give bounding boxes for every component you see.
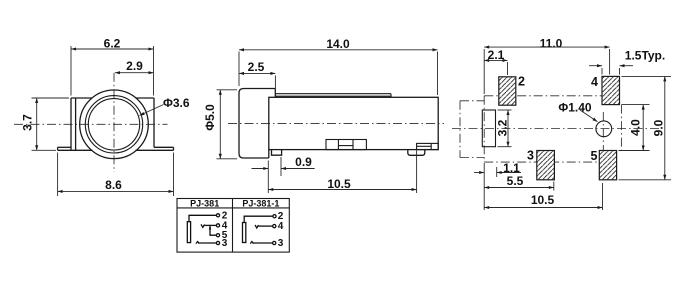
dimension 11.0 [484, 37, 609, 95]
svg-text:2.9: 2.9 [126, 59, 143, 73]
dimension 0.9 [252, 155, 315, 193]
svg-text:2.1: 2.1 [488, 48, 505, 62]
dimension 1.5 Typ [589, 49, 665, 75]
svg-text:3: 3 [222, 238, 228, 249]
svg-text:6.2: 6.2 [104, 37, 121, 51]
dimension 3.7 [21, 98, 70, 150]
svg-text:3: 3 [278, 238, 284, 249]
front hole circle [88, 99, 139, 150]
front view body outline [58, 98, 174, 150]
svg-text:11.0: 11.0 [540, 37, 563, 51]
svg-text:3.2: 3.2 [496, 119, 510, 136]
schematic 1 ring contact [196, 242, 199, 244]
pad 4 [591, 75, 619, 105]
svg-text:8.6: 8.6 [105, 178, 122, 192]
schematic 1 wire pin2 [189, 215, 216, 221]
land pattern hole centerline vertical [602, 112, 604, 153]
schematic 2 pin 3 [273, 241, 276, 244]
schematic 2 pin 4 [273, 225, 276, 228]
dimension 9.0 [619, 76, 672, 179]
svg-text:5: 5 [591, 149, 598, 163]
front view centerline horizontal [14, 123, 168, 125]
svg-text:1.1: 1.1 [503, 161, 520, 175]
front bushing outer circle [80, 90, 149, 159]
svg-text:5.5: 5.5 [507, 174, 524, 188]
label diameter 3.6 with leader [140, 96, 190, 116]
front view centerline vertical [113, 73, 115, 172]
dimension 10.5 (side) [268, 151, 416, 194]
svg-text:9.0: 9.0 [652, 119, 666, 136]
dimension 3.2 [496, 110, 512, 147]
svg-text:Φ1.40: Φ1.40 [558, 101, 592, 115]
svg-text:0.9: 0.9 [295, 155, 312, 169]
schematic 1 pin 3 [216, 241, 219, 244]
svg-text:4: 4 [278, 221, 284, 232]
dimension 1.1 [474, 161, 521, 210]
side view body [269, 97, 438, 149]
svg-text:3: 3 [527, 149, 534, 163]
schematic 1 wire pin4 [205, 224, 217, 226]
schematic 1 switch branch to pin5 [210, 225, 216, 235]
schematic 2 tip contact [255, 225, 259, 228]
front view left flange [58, 147, 71, 150]
svg-text:10.5: 10.5 [327, 177, 351, 191]
schematic 2 pin 2 [273, 215, 276, 218]
dimension 10.5 (land pattern) [484, 183, 602, 210]
pad 3 [527, 149, 554, 180]
svg-text:3.7: 3.7 [21, 114, 35, 131]
side view right terminal [417, 143, 439, 149]
schematic 2 ring contact [250, 242, 253, 244]
land pattern bushing dashed outline [460, 101, 484, 158]
sleeve pad outline (unhatched) [482, 110, 495, 147]
schematic 1 pin 5 [216, 234, 219, 237]
svg-text:PJ-381-1: PJ-381-1 [242, 199, 279, 209]
pad 2 [499, 75, 525, 106]
label diameter 1.40 with leader [558, 101, 597, 122]
svg-text:4: 4 [591, 75, 598, 89]
svg-text:1.5Typ.: 1.5Typ. [625, 49, 665, 63]
dimension diameter 5.0 [203, 90, 237, 159]
svg-text:Φ5.0: Φ5.0 [203, 104, 217, 131]
side view bushing [239, 89, 275, 159]
dimension 2.1 [484, 48, 507, 75]
schematic 1 pin 4 [216, 224, 219, 227]
dimension 4.0 [619, 105, 650, 151]
side view middle terminal block [326, 140, 366, 150]
svg-text:4.0: 4.0 [629, 119, 643, 136]
schematic 2 sleeve [243, 223, 246, 243]
svg-text:PJ-381: PJ-381 [190, 199, 219, 209]
svg-text:10.5: 10.5 [531, 193, 555, 207]
schematic 1 tip contact [201, 224, 205, 227]
svg-text:2.5: 2.5 [248, 60, 265, 74]
side view left foot [272, 150, 282, 156]
front view right flange [154, 147, 174, 150]
dimension 5.5 [484, 174, 554, 191]
side view top shield plate [275, 94, 391, 98]
dimension 2.9 [115, 59, 154, 74]
dimension 14.0 [239, 37, 438, 95]
side view right foot [408, 150, 425, 156]
schematic 2 wire pin3 [254, 242, 273, 244]
front middle circle [85, 96, 142, 153]
land pattern centerline horizontal [452, 128, 660, 130]
side view centerline [228, 123, 444, 125]
svg-text:Φ3.6: Φ3.6 [163, 96, 190, 110]
dimension 6.2 [71, 37, 154, 96]
hole diameter 1.40 [596, 121, 612, 137]
schematic table frame [177, 199, 289, 253]
schematic 2 wire pin4 [259, 225, 273, 227]
schematic 2 wire pin2 [244, 216, 273, 222]
schematic 1 sleeve [187, 222, 190, 243]
land pattern body dashed outline [484, 96, 621, 162]
svg-text:2: 2 [518, 75, 525, 89]
dimension 2.5 [239, 60, 275, 89]
pad 5 [591, 149, 617, 180]
schematic 1 pin 2 [216, 214, 219, 217]
dimension 8.6 [58, 153, 174, 197]
schematic 1 wire pin3 [199, 242, 216, 244]
svg-text:14.0: 14.0 [326, 37, 350, 51]
